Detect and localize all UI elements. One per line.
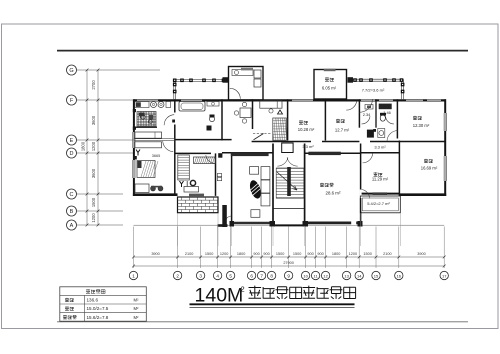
interior walls vertical [174, 99, 176, 112]
toilet left bath [209, 116, 214, 121]
window left wall [132, 132, 135, 148]
toilet bath2 [380, 115, 385, 121]
svg-text:2700: 2700 [91, 80, 96, 90]
balcony door sill [189, 194, 204, 197]
door arc bath left [164, 115, 174, 126]
bottom dim line 2 (overall) [134, 265, 445, 267]
row label 室内 [65, 298, 74, 302]
svg-text:15.0/2=7.5: 15.0/2=7.5 [87, 306, 109, 311]
wall below tiled bath [134, 126, 157, 128]
living-right window hatch [308, 152, 340, 155]
bottom rule line [57, 321, 468, 323]
svg-text:12: 12 [323, 273, 328, 278]
table header 建筑面积 [86, 289, 105, 293]
sofa set [250, 167, 259, 175]
grid bubble G [67, 65, 77, 75]
svg-text:2: 2 [176, 273, 179, 278]
grid bubble F [67, 95, 77, 105]
living-left window hatch [231, 152, 269, 156]
svg-text:2: 2 [241, 285, 245, 294]
svg-text:1200: 1200 [91, 213, 96, 223]
svg-text:14: 14 [357, 273, 362, 278]
grid bubble 7 [257, 271, 265, 279]
svg-text:13: 13 [344, 273, 349, 278]
outer wall bottom left unit [133, 193, 178, 196]
svg-text:27900: 27900 [283, 261, 294, 265]
brick balcony left [178, 197, 219, 213]
grid line A across building [134, 224, 445, 226]
svg-text:12.30 m²: 12.30 m² [413, 123, 430, 128]
bedroom2-left hatched bed vertical [178, 155, 190, 180]
svg-text:1500: 1500 [91, 197, 96, 207]
svg-text:10: 10 [303, 273, 308, 278]
svg-text:7: 7 [260, 273, 263, 278]
dark block [133, 156, 137, 160]
svg-text:A: A [70, 223, 74, 229]
bedroom2 top wall [175, 152, 211, 154]
fixtures below [367, 130, 374, 138]
grid bubble 3 [196, 271, 204, 279]
label 卧室 16.69 [424, 159, 433, 163]
svg-text:M²: M² [134, 315, 139, 320]
grid bubble 13 [342, 271, 350, 279]
title underline thin [190, 306, 355, 308]
svg-text:900: 900 [307, 252, 313, 256]
door arc living to balcony [361, 190, 370, 199]
svg-text:1800: 1800 [237, 252, 245, 256]
svg-text:1500: 1500 [363, 252, 371, 256]
svg-text:5: 5 [229, 273, 232, 278]
svg-text:12.7 m²: 12.7 m² [335, 128, 350, 133]
svg-text:1200: 1200 [349, 252, 357, 256]
svg-text:M²: M² [134, 306, 139, 311]
svg-text:M²: M² [134, 298, 139, 303]
svg-text:16.69 m²: 16.69 m² [421, 166, 438, 171]
svg-text:140M: 140M [195, 285, 244, 307]
bath2 vanity dark [379, 104, 392, 110]
svg-text:1200: 1200 [220, 252, 228, 256]
balcony right (5.4/2) [360, 196, 400, 213]
grid bubble 6 [247, 271, 255, 279]
svg-text:1800: 1800 [332, 252, 340, 256]
windows top wall [137, 99, 158, 102]
grid bubble 1 [129, 271, 137, 279]
dark node dots corridor [207, 126, 212, 131]
lobby columns [270, 221, 276, 227]
windows bottom living [351, 221, 356, 225]
svg-text:136.6: 136.6 [87, 298, 99, 303]
svg-text:2100: 2100 [185, 252, 193, 256]
dark fixture in bath [139, 113, 145, 117]
grid bubble 16 [395, 271, 403, 279]
left dim line inner [86, 70, 88, 225]
svg-text:3.3 m²: 3.3 m² [302, 144, 314, 149]
grid bubble 17 [440, 271, 448, 279]
svg-text:17: 17 [442, 273, 447, 278]
door hinge dot [172, 120, 175, 123]
svg-text:1500: 1500 [205, 252, 213, 256]
grid bubble 14 [355, 271, 363, 279]
svg-text:3600: 3600 [91, 168, 96, 178]
label 卧室 10.28 [299, 120, 308, 124]
tiled bath block left [137, 112, 156, 127]
stair landing line [273, 208, 305, 210]
stair treads [276, 168, 304, 198]
kitchen counter left unit [135, 102, 149, 108]
svg-text:7.7/2=3.6 m²: 7.7/2=3.6 m² [362, 88, 385, 93]
dresser + stools [135, 184, 149, 193]
svg-text:B: B [70, 209, 74, 215]
door arcs right unit [362, 116, 371, 124]
left bedroom2 bed [137, 161, 155, 178]
svg-text:1800: 1800 [81, 141, 86, 151]
svg-text:G: G [69, 68, 73, 74]
svg-text:11.29 m²: 11.29 m² [372, 177, 389, 182]
grid bubble A [67, 220, 77, 230]
extension stubs [177, 213, 179, 246]
dining table left unit [240, 108, 251, 118]
svg-text:900: 900 [253, 252, 259, 256]
label 餐厅 12.7 [336, 119, 345, 123]
label 起居室 28.6 [320, 183, 334, 187]
Y glyphs (ceiling fan marks) [136, 150, 140, 156]
svg-text:3900: 3900 [417, 252, 425, 256]
interior walls horizontal [175, 139, 232, 141]
left balcony railing [175, 78, 228, 80]
wall node [133, 109, 136, 112]
door arc top-left room [230, 88, 241, 99]
svg-text:3.3 m²: 3.3 m² [374, 145, 386, 150]
door arc kitchen [346, 101, 356, 110]
svg-text:6.05 m²: 6.05 m² [322, 86, 337, 91]
grid bubble C [67, 189, 77, 199]
balcony door sill [373, 192, 388, 195]
bedroom2 right wall [215, 153, 217, 196]
grid bubble 10 [301, 271, 309, 279]
svg-text:900: 900 [317, 252, 323, 256]
grid bubble 8 [267, 271, 275, 279]
svg-text:3600: 3600 [91, 115, 96, 125]
grid bubble 12 [321, 271, 329, 279]
door arc bedroom2 [206, 155, 215, 163]
big corner post right [348, 77, 354, 83]
svg-text:1: 1 [132, 273, 135, 278]
door arc living-left corner [225, 216, 232, 223]
grid bubble 9 [284, 271, 292, 279]
svg-text:5.4/2=2.7 m²: 5.4/2=2.7 m² [367, 201, 390, 206]
bath1 sink [365, 105, 373, 110]
kitchen room right unit [314, 70, 347, 100]
bathtub [179, 102, 205, 112]
grid bubble E [67, 135, 77, 145]
svg-text:3665: 3665 [152, 154, 160, 158]
wardrobe hall left unit [273, 118, 287, 141]
svg-text:3900: 3900 [151, 252, 159, 256]
top-left room (kitchen L-unit) [229, 67, 264, 101]
svg-text:E: E [70, 138, 74, 144]
bottom extension lines [133, 227, 135, 269]
left bedroom1 wardrobe/bed rects [135, 132, 162, 138]
entry door arcs [277, 158, 288, 167]
grid bubble 5 [226, 271, 234, 279]
svg-text:C: C [70, 192, 74, 198]
svg-text:15: 15 [374, 273, 379, 278]
svg-text:15.6/2=7.8: 15.6/2=7.8 [87, 315, 109, 320]
left dim ticks [86, 69, 100, 227]
label 卧室 12.30 [413, 116, 422, 120]
grid bubble D [67, 148, 77, 158]
grid bubble 15 [372, 271, 380, 279]
svg-text:28.6 m²: 28.6 m² [326, 191, 341, 196]
svg-text:1200: 1200 [91, 141, 96, 151]
svg-text:D: D [70, 151, 74, 157]
wall node [133, 127, 136, 130]
svg-text:16: 16 [397, 273, 402, 278]
duct box [217, 174, 221, 177]
svg-text:10.28 m²: 10.28 m² [298, 127, 315, 132]
stair arrow [277, 172, 297, 190]
main outer wall top [134, 99, 447, 101]
coffee table dark ellipse [248, 179, 263, 200]
grid bubble B [67, 206, 77, 216]
grid bubble 11 [311, 271, 319, 279]
svg-text:2100: 2100 [383, 252, 391, 256]
door arc bedroom 11.29 [363, 153, 373, 163]
outer wall right [444, 99, 446, 196]
outer wall left [133, 99, 135, 196]
door arc bedroom1 left [163, 141, 174, 152]
svg-text:6: 6 [250, 273, 253, 278]
desk + chair [184, 187, 199, 193]
svg-text:9: 9 [287, 273, 290, 278]
hall cabinet [260, 101, 282, 108]
wing wall left [222, 205, 227, 227]
big corner post left [223, 77, 229, 83]
left grid axis lines [77, 69, 160, 71]
wardrobe hatched band [194, 157, 216, 164]
svg-text:4: 4 [216, 273, 219, 278]
windows right wall [444, 113, 447, 131]
bottom dim line 1 [134, 256, 445, 258]
svg-text:3: 3 [199, 273, 202, 278]
area table [60, 287, 147, 321]
lobby bottom wall [273, 224, 305, 226]
label 卧室 11.29 [374, 172, 383, 176]
entry porch [282, 143, 293, 153]
row label 楼梯间 [63, 315, 77, 319]
svg-text:1500: 1500 [293, 252, 301, 256]
wall band through bedroom1 [134, 139, 175, 141]
node dot [373, 129, 376, 132]
svg-text:1500: 1500 [276, 252, 284, 256]
grid bubble 4 [213, 271, 221, 279]
svg-text:900: 900 [263, 252, 269, 256]
svg-text:8: 8 [270, 273, 273, 278]
label 厨房 [325, 77, 334, 81]
left dim line outer [97, 70, 99, 225]
sink left bath [207, 102, 219, 107]
right balcony railing [353, 78, 403, 80]
title underline thick [190, 303, 355, 305]
row label 阳台 [65, 306, 74, 310]
top rule line [57, 50, 468, 52]
grid bubble 2 [173, 271, 181, 279]
outer wall bottom right unit [399, 193, 446, 196]
